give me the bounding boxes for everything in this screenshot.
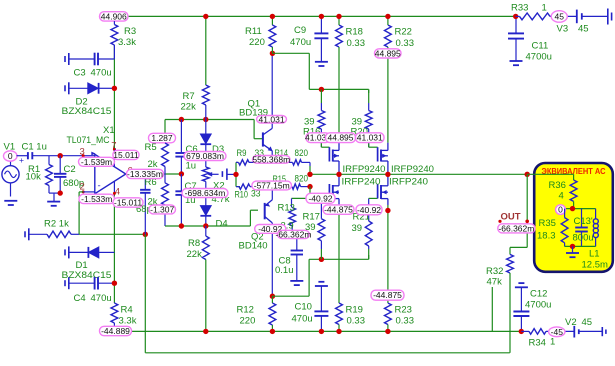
svg-text:IRFP240: IRFP240 xyxy=(342,177,381,188)
svg-text:220: 220 xyxy=(240,316,256,327)
label D4 xyxy=(216,219,228,230)
label V1 xyxy=(4,142,16,153)
resistor R2 xyxy=(25,228,79,240)
resistor R5 xyxy=(162,143,169,174)
diode D3 xyxy=(200,120,211,168)
label X2 value xyxy=(212,194,230,205)
label R13 value xyxy=(281,221,294,232)
label C6 xyxy=(186,144,198,155)
label R19 value xyxy=(347,316,366,327)
junction R8 bottom xyxy=(203,329,208,334)
svg-text:R9: R9 xyxy=(237,148,247,159)
node -40.92 Q2 box xyxy=(255,224,286,234)
node 41.031 left gate box xyxy=(305,133,331,143)
svg-text:0: 0 xyxy=(558,205,563,215)
svg-text:IRFP9240: IRFP9240 xyxy=(343,164,386,175)
label R18 xyxy=(346,27,363,38)
label R6 xyxy=(145,177,157,188)
capacitor C2 xyxy=(54,156,66,193)
label R35 value xyxy=(537,231,556,242)
label R1 value xyxy=(26,172,42,183)
capacitor C13 xyxy=(575,209,588,247)
svg-text:R5: R5 xyxy=(145,142,157,153)
svg-text:-44.889: -44.889 xyxy=(101,326,130,336)
label D3 xyxy=(212,144,224,155)
label EKVIVALENT AC xyxy=(542,167,606,176)
label 68p xyxy=(136,204,152,215)
svg-text:V2: V2 xyxy=(565,317,577,328)
svg-text:45: 45 xyxy=(582,317,593,328)
node -66.362m OUT box xyxy=(498,223,535,233)
resistor R22 xyxy=(385,16,392,142)
label R9 xyxy=(237,148,247,159)
transistor M3 IRFP240 lower-left xyxy=(329,174,339,205)
label V3 value xyxy=(578,24,589,35)
junction input node xyxy=(58,153,63,158)
node -1.307 box xyxy=(149,204,176,214)
label R4 xyxy=(121,305,133,316)
label R22 value xyxy=(396,38,415,49)
label R33 xyxy=(511,3,528,14)
capacitor C5 68p xyxy=(140,174,150,234)
pin 4 supply stub xyxy=(113,181,115,193)
junction C4 node xyxy=(112,281,117,286)
junction C12 bottom xyxy=(519,329,524,334)
svg-text:0.33: 0.33 xyxy=(347,38,366,49)
terminal X2 wiper xyxy=(222,169,236,180)
label R5 value xyxy=(148,159,158,170)
svg-text:+: + xyxy=(19,155,24,165)
label C11 value xyxy=(526,52,552,63)
node -44.875 supply rail (bottom) xyxy=(132,330,522,332)
svg-text:820: 820 xyxy=(295,174,309,185)
resistor R35 xyxy=(561,209,568,247)
transistor M1 IRFP9240 upper-left xyxy=(321,143,339,175)
svg-text:BD140: BD140 xyxy=(239,241,268,252)
pin 4 label xyxy=(115,187,120,198)
label D1 xyxy=(76,260,88,271)
junction R7 top xyxy=(203,14,208,19)
svg-text:R36: R36 xyxy=(549,180,566,191)
wire bias bottom node xyxy=(165,210,258,226)
label IRFP9240 left xyxy=(343,164,386,175)
label R6 value xyxy=(148,197,158,208)
svg-text:V3: V3 xyxy=(557,24,569,35)
svg-text:-: - xyxy=(98,180,101,191)
svg-text:4700u: 4700u xyxy=(525,300,551,311)
resistor R11 xyxy=(269,16,276,53)
pin 2 label xyxy=(80,182,85,193)
label R36 value xyxy=(559,191,564,202)
capacitor C11 xyxy=(508,16,524,60)
wire output rail (OUT node) xyxy=(310,173,527,175)
label R8 xyxy=(188,238,200,249)
svg-text:0.1u: 0.1u xyxy=(275,265,294,276)
label C8 xyxy=(279,256,291,267)
label D1 type xyxy=(62,270,112,281)
junction R15 node xyxy=(307,184,312,193)
resistor R13 xyxy=(289,198,296,232)
svg-text:-44.875: -44.875 xyxy=(373,290,402,300)
diode D4 xyxy=(200,182,211,227)
source V1 xyxy=(2,161,19,197)
svg-text:-1.533m: -1.533m xyxy=(81,194,112,204)
junction R22 top xyxy=(385,14,390,19)
svg-text:R12: R12 xyxy=(237,304,254,315)
svg-text:470u: 470u xyxy=(91,293,112,304)
svg-text:1: 1 xyxy=(550,337,555,348)
wire node X column xyxy=(236,162,240,186)
label R3 xyxy=(124,26,136,37)
wire R1-C2 join xyxy=(49,192,60,194)
label R9 value xyxy=(255,148,265,159)
node -44.889 box xyxy=(100,326,132,336)
svg-text:-45: -45 xyxy=(551,327,564,337)
label R7 value xyxy=(181,102,197,113)
svg-text:10k: 10k xyxy=(26,172,42,183)
ground (speaker box) xyxy=(566,246,579,257)
svg-text:R32: R32 xyxy=(486,266,503,277)
wire upper gate bias xyxy=(272,53,368,93)
label R22 xyxy=(395,27,412,38)
junction D2 node xyxy=(112,86,117,91)
svg-text:679.083m: 679.083m xyxy=(186,151,224,161)
svg-text:470u: 470u xyxy=(290,37,311,48)
svg-text:0.33: 0.33 xyxy=(396,316,415,327)
svg-text:-13.335m: -13.335m xyxy=(127,169,163,179)
node 44.895 top box xyxy=(375,48,402,58)
plus supply mark xyxy=(113,146,118,155)
transistor Q1 BD139 xyxy=(263,53,273,162)
label R13 xyxy=(278,203,295,214)
svg-text:R11: R11 xyxy=(245,26,262,37)
label V2 xyxy=(565,317,577,328)
inductor L1 xyxy=(593,209,598,247)
label D2 xyxy=(76,97,88,108)
battery V3 xyxy=(577,9,612,25)
label Q1 xyxy=(248,99,261,110)
label R32 value xyxy=(487,277,503,288)
label C11 xyxy=(532,41,549,52)
resistor R21 xyxy=(365,198,372,259)
wire RLC bottom xyxy=(565,245,596,247)
node -40.92 right gate box xyxy=(356,205,382,215)
label R11 value xyxy=(249,37,265,48)
svg-text:45: 45 xyxy=(578,24,589,35)
diode D1 xyxy=(65,246,114,258)
svg-text:R7: R7 xyxy=(183,91,195,102)
wire C1 to op-amp +in xyxy=(32,155,95,157)
svg-text:44.895: 44.895 xyxy=(328,133,354,143)
node 558.368m box xyxy=(252,154,290,164)
label R12 xyxy=(237,304,254,315)
label V3 xyxy=(557,24,569,35)
svg-text:IRFP9240: IRFP9240 xyxy=(391,164,434,175)
svg-text:-1.539m: -1.539m xyxy=(81,157,112,167)
svg-text:BZX84C15: BZX84C15 xyxy=(62,106,112,117)
svg-text:R18: R18 xyxy=(346,27,363,38)
svg-text:820: 820 xyxy=(295,148,309,159)
label C7 xyxy=(185,181,197,192)
node -15.011 box xyxy=(113,198,143,208)
svg-text:-66.362m: -66.362m xyxy=(498,223,534,233)
label TL071_MC xyxy=(67,135,110,146)
node 45 oval xyxy=(551,11,567,23)
junction drain right xyxy=(385,172,390,177)
resistor R18 xyxy=(336,16,343,142)
resistor R6 xyxy=(162,174,169,226)
label R34 xyxy=(529,338,546,349)
node -698.634m box xyxy=(182,188,228,198)
resistor R34 xyxy=(521,329,574,335)
label X2 xyxy=(213,181,225,192)
label R17 xyxy=(303,211,320,222)
junction C11 top xyxy=(513,14,518,19)
wire V1 to C1 xyxy=(17,155,28,157)
label R14 xyxy=(275,148,289,159)
ground (C9) xyxy=(315,62,328,66)
svg-text:R3: R3 xyxy=(124,26,136,37)
label IRFP240 left xyxy=(342,177,381,188)
label R11 xyxy=(245,26,262,37)
label R5 xyxy=(145,142,157,153)
svg-text:R17: R17 xyxy=(303,211,320,222)
svg-text:TL071_MC: TL071_MC xyxy=(67,135,110,146)
wire R2 to feedback node xyxy=(79,233,145,235)
svg-text:C1 1u: C1 1u xyxy=(22,142,47,153)
svg-text:R8: R8 xyxy=(188,238,200,249)
op-amp U1 X1 TL071 xyxy=(91,152,126,194)
svg-text:0.33: 0.33 xyxy=(347,316,366,327)
wire -15V zener column xyxy=(113,193,115,302)
wire pin2 feedback drop xyxy=(79,192,95,234)
svg-text:R19: R19 xyxy=(346,304,363,315)
svg-text:C4: C4 xyxy=(74,293,86,304)
node -45 oval xyxy=(549,327,565,337)
svg-text:18.3: 18.3 xyxy=(537,231,556,242)
label X1 xyxy=(103,125,115,136)
resistor R9 xyxy=(236,160,272,165)
junction output left xyxy=(307,172,312,177)
resistor R12 xyxy=(269,296,276,331)
svg-text:22k: 22k xyxy=(187,249,203,260)
label IRFP9240 right xyxy=(391,164,434,175)
svg-text:C9: C9 xyxy=(294,25,306,36)
resistor R8 xyxy=(202,226,209,331)
wire lower gate bias xyxy=(272,255,368,296)
resistor R17 xyxy=(318,198,325,259)
capacitor C8 xyxy=(291,239,303,281)
resistor R23 xyxy=(385,205,392,331)
label C4 xyxy=(74,293,86,304)
label D2 type xyxy=(62,106,112,117)
label R23 value xyxy=(396,316,415,327)
resistor R19 xyxy=(336,205,343,331)
ground (C11) xyxy=(510,61,523,65)
svg-text:3.3k: 3.3k xyxy=(119,316,137,327)
label R4 value xyxy=(119,316,137,327)
node 44.906 box xyxy=(100,11,129,21)
capacitor C7 xyxy=(175,174,187,226)
svg-text:800u: 800u xyxy=(573,233,594,244)
svg-text:-40.92: -40.92 xyxy=(308,193,332,203)
label C3 xyxy=(74,68,86,79)
label V2 value xyxy=(582,317,593,328)
svg-text:-698.634m: -698.634m xyxy=(185,188,226,198)
junction R1/C2 ground node xyxy=(58,190,63,195)
label R14 value xyxy=(295,148,309,159)
junction R16 tap xyxy=(319,87,324,92)
svg-text:47k: 47k xyxy=(487,277,503,288)
resistor R1 xyxy=(46,156,53,193)
label C10 xyxy=(295,302,312,313)
label R16 xyxy=(303,127,320,138)
junction R11 top xyxy=(270,14,275,19)
svg-text:39: 39 xyxy=(352,223,363,234)
label C4 value xyxy=(91,293,112,304)
node -1.539m box xyxy=(79,157,115,167)
pin 7 dot xyxy=(113,148,116,151)
svg-text:L1: L1 xyxy=(589,249,600,260)
label IRFP240 right xyxy=(389,177,428,188)
junction R12 bottom xyxy=(270,329,275,334)
resistor R15 xyxy=(272,184,310,189)
label R8 value xyxy=(187,249,203,260)
label R3 value xyxy=(118,37,136,48)
node -44.875 R23 box xyxy=(371,290,404,300)
svg-text:22k: 22k xyxy=(181,102,197,113)
junction RLC top xyxy=(570,206,575,211)
node +44.906 supply rail (top) xyxy=(128,15,516,17)
svg-text:IRFP240: IRFP240 xyxy=(389,177,428,188)
label R15 value xyxy=(295,174,309,185)
pin 4 dot xyxy=(113,192,116,195)
junction bias bottom C7 xyxy=(179,223,184,228)
label R10 value xyxy=(251,188,261,199)
label Q2 type xyxy=(239,241,268,252)
svg-text:-44.875: -44.875 xyxy=(324,205,353,215)
label R35 xyxy=(539,218,556,229)
svg-text:0.33: 0.33 xyxy=(396,38,415,49)
label L1 xyxy=(589,249,600,260)
label R1 xyxy=(28,164,40,175)
label C9 value xyxy=(290,37,311,48)
label R20 value xyxy=(352,117,363,128)
resistor R32 xyxy=(507,254,514,352)
junction R18 top xyxy=(336,14,341,19)
node 1.287 box xyxy=(149,133,176,143)
label R16 value xyxy=(304,117,315,128)
junction feedback node xyxy=(143,232,148,237)
svg-text:41.031: 41.031 xyxy=(259,114,285,124)
wire stub right xyxy=(491,287,493,331)
node -13.335m box xyxy=(127,169,164,179)
junction Q2 collector xyxy=(270,294,275,299)
wire OUT branch xyxy=(510,174,527,254)
ground (below C8) xyxy=(290,281,303,285)
wire bias top node xyxy=(165,120,263,144)
ground (below V1) xyxy=(4,201,17,205)
label L1 value xyxy=(582,260,608,271)
svg-text:4: 4 xyxy=(115,187,120,198)
label R21 xyxy=(353,212,370,223)
label R7 xyxy=(183,91,195,102)
label R20 xyxy=(351,127,368,138)
svg-text:OUT: OUT xyxy=(501,212,521,223)
svg-text:-40.92: -40.92 xyxy=(357,205,381,215)
junction mid node xyxy=(179,171,184,176)
wire feedback column xyxy=(144,234,146,352)
svg-text:4: 4 xyxy=(559,191,564,202)
svg-text:558.368m: 558.368m xyxy=(252,154,290,164)
pin OUT dot xyxy=(498,220,529,224)
label R32 xyxy=(486,266,503,277)
junction node X xyxy=(233,172,238,177)
label R10 xyxy=(235,189,249,200)
label R15 xyxy=(273,174,287,185)
node 0 voltage oval xyxy=(4,151,18,161)
label OUT xyxy=(501,212,521,223)
svg-text:R23: R23 xyxy=(395,304,412,315)
wire feedback return rail (bottom) xyxy=(145,352,510,354)
resistor R20 xyxy=(365,89,372,147)
label R19 xyxy=(346,304,363,315)
wire op-amp output xyxy=(126,173,182,175)
svg-text:-66.362m: -66.362m xyxy=(275,229,311,239)
transistor M2 IRFP9240 upper-right xyxy=(369,143,388,175)
svg-text:3.3k: 3.3k xyxy=(118,37,136,48)
node 0 oval xyxy=(556,205,566,215)
wire out to R36 xyxy=(527,174,573,180)
svg-text:R2 1k: R2 1k xyxy=(44,219,69,230)
label R12 value xyxy=(240,316,256,327)
wire +15V zener column xyxy=(113,45,115,149)
svg-text:R4: R4 xyxy=(121,305,133,316)
capacitor C9 xyxy=(314,16,328,61)
label C9 xyxy=(294,25,306,36)
junction output right xyxy=(525,172,530,177)
label Q2 xyxy=(251,232,264,243)
node -66.362m R13 box xyxy=(275,229,311,239)
node -1.533m box xyxy=(79,194,115,204)
label R36 xyxy=(549,180,566,191)
svg-text:C3: C3 xyxy=(74,68,86,79)
speaker equivalent box xyxy=(534,163,613,272)
label R2 1k xyxy=(44,219,69,230)
resistor R7 xyxy=(202,16,209,119)
svg-text:15.011: 15.011 xyxy=(113,150,139,160)
label C13 xyxy=(574,216,593,227)
label R18 value xyxy=(347,38,366,49)
junction bias top C6 xyxy=(179,117,184,122)
junction drain left xyxy=(336,172,341,177)
node 15.011 box xyxy=(113,150,139,160)
svg-text:470u: 470u xyxy=(292,314,313,325)
label C2 value xyxy=(63,178,84,189)
label C13 value xyxy=(573,233,594,244)
resistor R36 xyxy=(570,180,577,209)
svg-text:1: 1 xyxy=(542,3,547,14)
label C12 value xyxy=(525,300,551,311)
svg-text:C13': C13' xyxy=(574,216,593,227)
svg-text:1u: 1u xyxy=(186,161,197,172)
label C8 value xyxy=(275,265,294,276)
label C1 1u xyxy=(22,142,47,153)
label C6 value xyxy=(186,161,197,172)
resistor R4 xyxy=(111,303,118,328)
potentiometer X2 xyxy=(202,167,218,182)
junction Q1 collector xyxy=(270,51,275,56)
